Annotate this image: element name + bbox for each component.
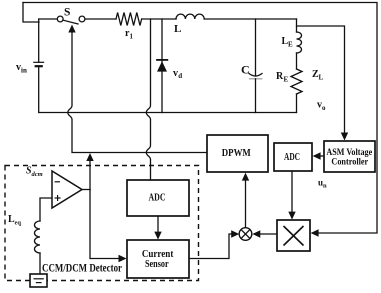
svg-text:ADC: ADC: [149, 193, 166, 204]
svg-text:ADC: ADC: [284, 152, 300, 163]
svg-text:Sensor: Sensor: [145, 259, 169, 270]
svg-text:DPWM: DPWM: [222, 148, 251, 159]
svg-text:dcm: dcm: [32, 171, 43, 178]
svg-text:E: E: [284, 76, 289, 84]
svg-text:n: n: [323, 183, 327, 190]
svg-text:in: in: [21, 67, 27, 75]
svg-text:L: L: [319, 74, 324, 82]
svg-text:v: v: [173, 68, 178, 79]
svg-text:E: E: [288, 41, 293, 49]
svg-text:d: d: [178, 72, 182, 80]
svg-text:S: S: [64, 7, 70, 19]
svg-text:1: 1: [130, 33, 134, 41]
svg-text:o: o: [322, 104, 326, 112]
svg-text:eq: eq: [15, 220, 22, 227]
svg-text:L: L: [174, 23, 181, 35]
svg-text:CCM/DCM Detector: CCM/DCM Detector: [42, 262, 122, 274]
svg-text:C: C: [241, 63, 250, 77]
svg-text:Controller: Controller: [331, 157, 368, 167]
